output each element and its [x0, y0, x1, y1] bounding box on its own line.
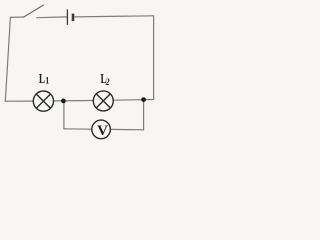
node junction dot right (after L2)	[141, 97, 146, 102]
wire battery to top-right corner	[75, 16, 154, 17]
label L1	[39, 70, 49, 87]
wire voltmeter branch right horizontal	[110, 128, 143, 130]
battery short plate (-)	[72, 14, 75, 22]
switch fixed contact wire to battery	[37, 16, 67, 19]
label L2	[101, 70, 110, 87]
wire bottom-right horizontal L2 to right corner	[113, 99, 153, 102]
lamp L2	[93, 91, 113, 111]
wire right vertical	[153, 16, 155, 100]
wire voltmeter branch left vertical	[63, 101, 65, 129]
svg-text:2: 2	[105, 77, 110, 87]
svg-text:V: V	[97, 123, 108, 139]
battery long plate (+)	[66, 9, 68, 24]
lamp L1	[33, 91, 53, 111]
wire left vertical	[5, 17, 10, 101]
switch S blade (open)	[24, 5, 44, 17]
node junction dot left (between L1 and L2)	[61, 99, 66, 104]
wire top-left horizontal to switch pivot	[10, 16, 23, 18]
voltmeter V	[92, 120, 111, 139]
svg-text:1: 1	[45, 75, 49, 86]
wire voltmeter branch right vertical	[143, 100, 145, 130]
wire bottom-left horizontal to L1	[5, 100, 33, 102]
wire voltmeter branch left horizontal	[64, 128, 92, 130]
svg-text:L: L	[39, 70, 45, 87]
wire between L1 and L2	[54, 100, 94, 102]
